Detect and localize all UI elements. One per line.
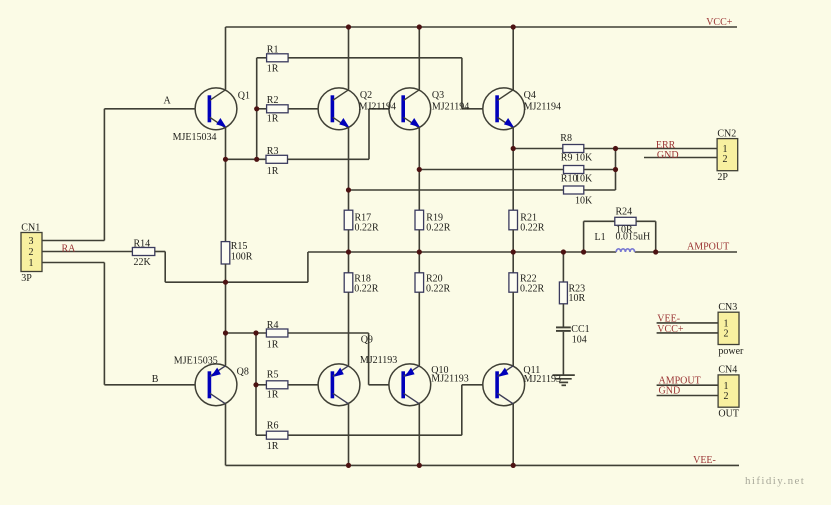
svg-text:2: 2 <box>723 154 728 165</box>
svg-text:L1: L1 <box>595 232 606 243</box>
svg-text:MJ21193: MJ21193 <box>360 355 397 366</box>
svg-text:0.22R: 0.22R <box>354 284 379 295</box>
svg-text:10K: 10K <box>575 196 593 207</box>
svg-text:VEE-: VEE- <box>657 314 680 325</box>
svg-text:MJ21193: MJ21193 <box>524 374 561 385</box>
svg-text:RA: RA <box>62 243 77 254</box>
svg-text:2: 2 <box>29 247 34 258</box>
svg-text:0.22R: 0.22R <box>520 284 545 295</box>
svg-text:MJE15035: MJE15035 <box>174 355 218 366</box>
svg-text:0.015uH: 0.015uH <box>616 232 651 243</box>
svg-text:1R: 1R <box>267 63 279 74</box>
svg-text:R9: R9 <box>561 153 573 164</box>
svg-text:R15: R15 <box>231 241 248 252</box>
svg-text:hifidiy.net: hifidiy.net <box>745 475 805 487</box>
svg-text:1: 1 <box>29 258 34 269</box>
svg-text:OUT: OUT <box>718 409 739 420</box>
svg-text:VEE-: VEE- <box>693 455 716 466</box>
svg-text:0.22R: 0.22R <box>520 223 545 234</box>
svg-text:CN4: CN4 <box>718 365 737 376</box>
svg-text:B: B <box>152 374 159 385</box>
svg-text:10K: 10K <box>575 173 593 184</box>
svg-text:1R: 1R <box>267 389 279 400</box>
svg-text:3P: 3P <box>21 273 32 284</box>
svg-text:2: 2 <box>724 329 729 340</box>
svg-text:CN1: CN1 <box>21 222 40 233</box>
svg-text:Q2: Q2 <box>360 90 372 101</box>
svg-text:R4: R4 <box>267 320 279 331</box>
svg-text:R1: R1 <box>267 44 279 55</box>
svg-text:A: A <box>164 96 172 107</box>
svg-text:R3: R3 <box>267 146 279 157</box>
svg-text:MJ21194: MJ21194 <box>524 102 561 113</box>
svg-text:1R: 1R <box>267 166 279 177</box>
svg-text:Q9: Q9 <box>361 335 373 346</box>
svg-text:MJ21194: MJ21194 <box>359 102 396 113</box>
svg-text:0.22R: 0.22R <box>426 223 451 234</box>
svg-text:0.22R: 0.22R <box>355 223 380 234</box>
svg-text:22K: 22K <box>134 257 152 268</box>
svg-text:MJ21194: MJ21194 <box>432 102 469 113</box>
svg-text:10K: 10K <box>575 152 593 163</box>
svg-text:2: 2 <box>724 391 729 402</box>
svg-text:0.22R: 0.22R <box>426 284 451 295</box>
svg-text:R2: R2 <box>267 95 279 106</box>
svg-text:1R: 1R <box>267 441 279 452</box>
svg-text:100R: 100R <box>231 252 253 263</box>
svg-text:Q4: Q4 <box>524 90 536 101</box>
svg-text:CN3: CN3 <box>718 302 737 313</box>
svg-text:3: 3 <box>29 236 34 247</box>
svg-text:10R: 10R <box>569 293 586 304</box>
svg-text:MJE15034: MJE15034 <box>173 132 217 143</box>
svg-text:GND: GND <box>659 386 681 397</box>
svg-text:Q3: Q3 <box>432 90 444 101</box>
svg-text:VCC+: VCC+ <box>657 324 684 335</box>
svg-text:CC1: CC1 <box>571 324 589 335</box>
svg-text:Q1: Q1 <box>238 91 250 102</box>
svg-text:1R: 1R <box>267 113 279 124</box>
svg-text:MJ21193: MJ21193 <box>431 373 468 384</box>
svg-text:R10: R10 <box>561 174 578 185</box>
svg-text:1R: 1R <box>267 340 279 351</box>
svg-text:Q8: Q8 <box>237 367 249 378</box>
svg-text:R14: R14 <box>134 239 151 250</box>
svg-text:GND: GND <box>657 150 679 161</box>
svg-text:R6: R6 <box>267 421 279 432</box>
svg-text:power: power <box>718 346 744 357</box>
svg-text:AMPOUT: AMPOUT <box>687 242 729 253</box>
svg-text:R5: R5 <box>267 369 279 380</box>
svg-text:104: 104 <box>572 334 587 345</box>
svg-text:R24: R24 <box>616 207 633 218</box>
svg-text:R8: R8 <box>560 133 572 144</box>
svg-text:VCC+: VCC+ <box>706 17 733 28</box>
svg-text:CN2: CN2 <box>717 128 736 139</box>
svg-text:2P: 2P <box>717 172 728 183</box>
